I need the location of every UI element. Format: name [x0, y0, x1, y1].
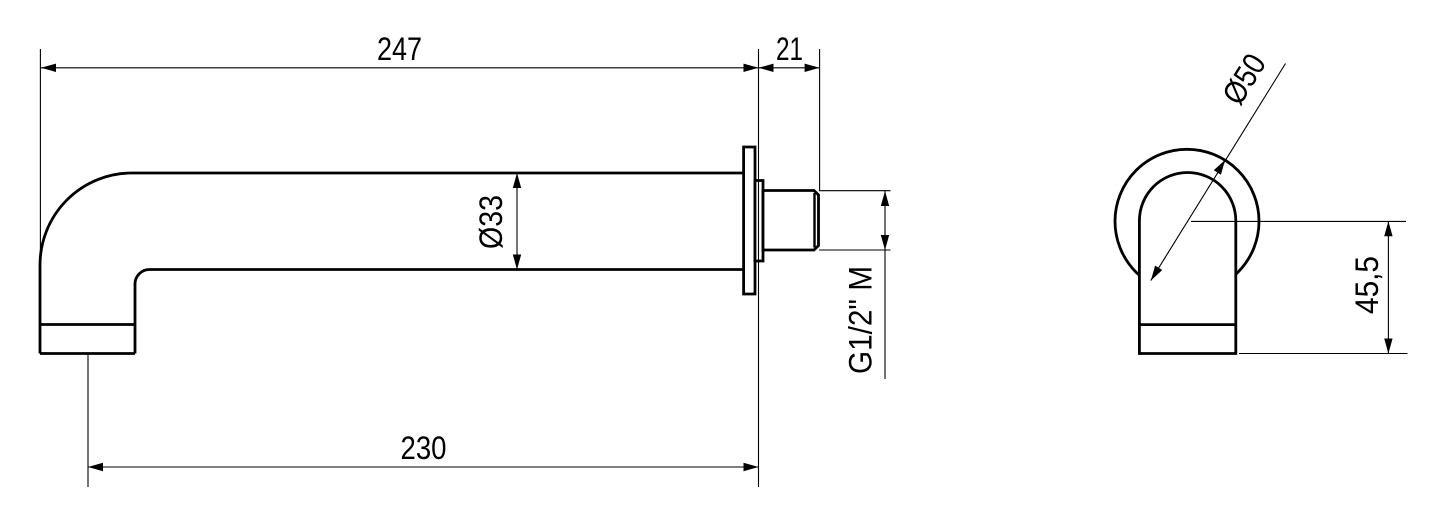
extension line spout tip (left) [39, 49, 41, 266]
arrowhead 230 right [744, 463, 759, 471]
arrowhead 230 left [88, 463, 103, 471]
extension line outlet center [87, 355, 89, 487]
svg-text:230: 230 [401, 430, 447, 466]
dimension line 45,5 [1387, 221, 1389, 353]
dimension line diameter 33 [516, 173, 518, 270]
spout body (front view) [1139, 172, 1235, 353]
dimension line thread diameter G1/2 [884, 191, 886, 379]
spout bottom edge (side view) [40, 352, 135, 355]
arrowhead dia50 lower [1151, 266, 1163, 281]
arrowhead dia50 upper [1214, 160, 1225, 175]
aerator line (front view) [1139, 323, 1235, 326]
wall flange circle (front view) [1115, 149, 1259, 293]
spout body inner profile (side view) [135, 270, 744, 354]
wall flange (side view) [744, 147, 755, 294]
svg-text:45,5: 45,5 [1349, 256, 1385, 314]
spout body outer profile (side view) [40, 173, 744, 354]
dimension line 230 [88, 466, 759, 468]
svg-text:Ø33: Ø33 [473, 195, 509, 249]
thread chamfer edge line [813, 193, 815, 248]
extension line thread end [819, 49, 821, 190]
svg-text:247: 247 [377, 31, 422, 67]
threaded nipple G1/2 (side view) [763, 191, 819, 251]
collar (side view) [755, 181, 763, 262]
svg-text:21: 21 [776, 31, 803, 67]
extension lines thread diameter [819, 191, 891, 250]
arrowhead dia33 bottom [513, 255, 521, 270]
arrowhead G1/2 bottom [881, 235, 889, 250]
leader line diameter 50 [1151, 64, 1286, 281]
arrowhead 21 right [805, 64, 820, 72]
arrowhead 21 left [759, 64, 774, 72]
extension line circle center (front view) [1191, 220, 1406, 222]
arrowhead dia33 top [513, 173, 521, 188]
arrowhead 45,5 top [1384, 221, 1392, 236]
dimension line 247 and 21 [41, 67, 820, 69]
extension line wall face [758, 49, 760, 487]
arrowhead G1/2 top [881, 191, 889, 206]
extension line bottom (front view) [1239, 353, 1408, 355]
arrowhead 45,5 bottom [1384, 339, 1392, 354]
arrowhead 247 right [744, 64, 759, 72]
aerator line (side view) [40, 323, 135, 326]
svg-text:G1/2" M: G1/2" M [843, 266, 879, 374]
arrowhead 247 left [41, 64, 56, 72]
